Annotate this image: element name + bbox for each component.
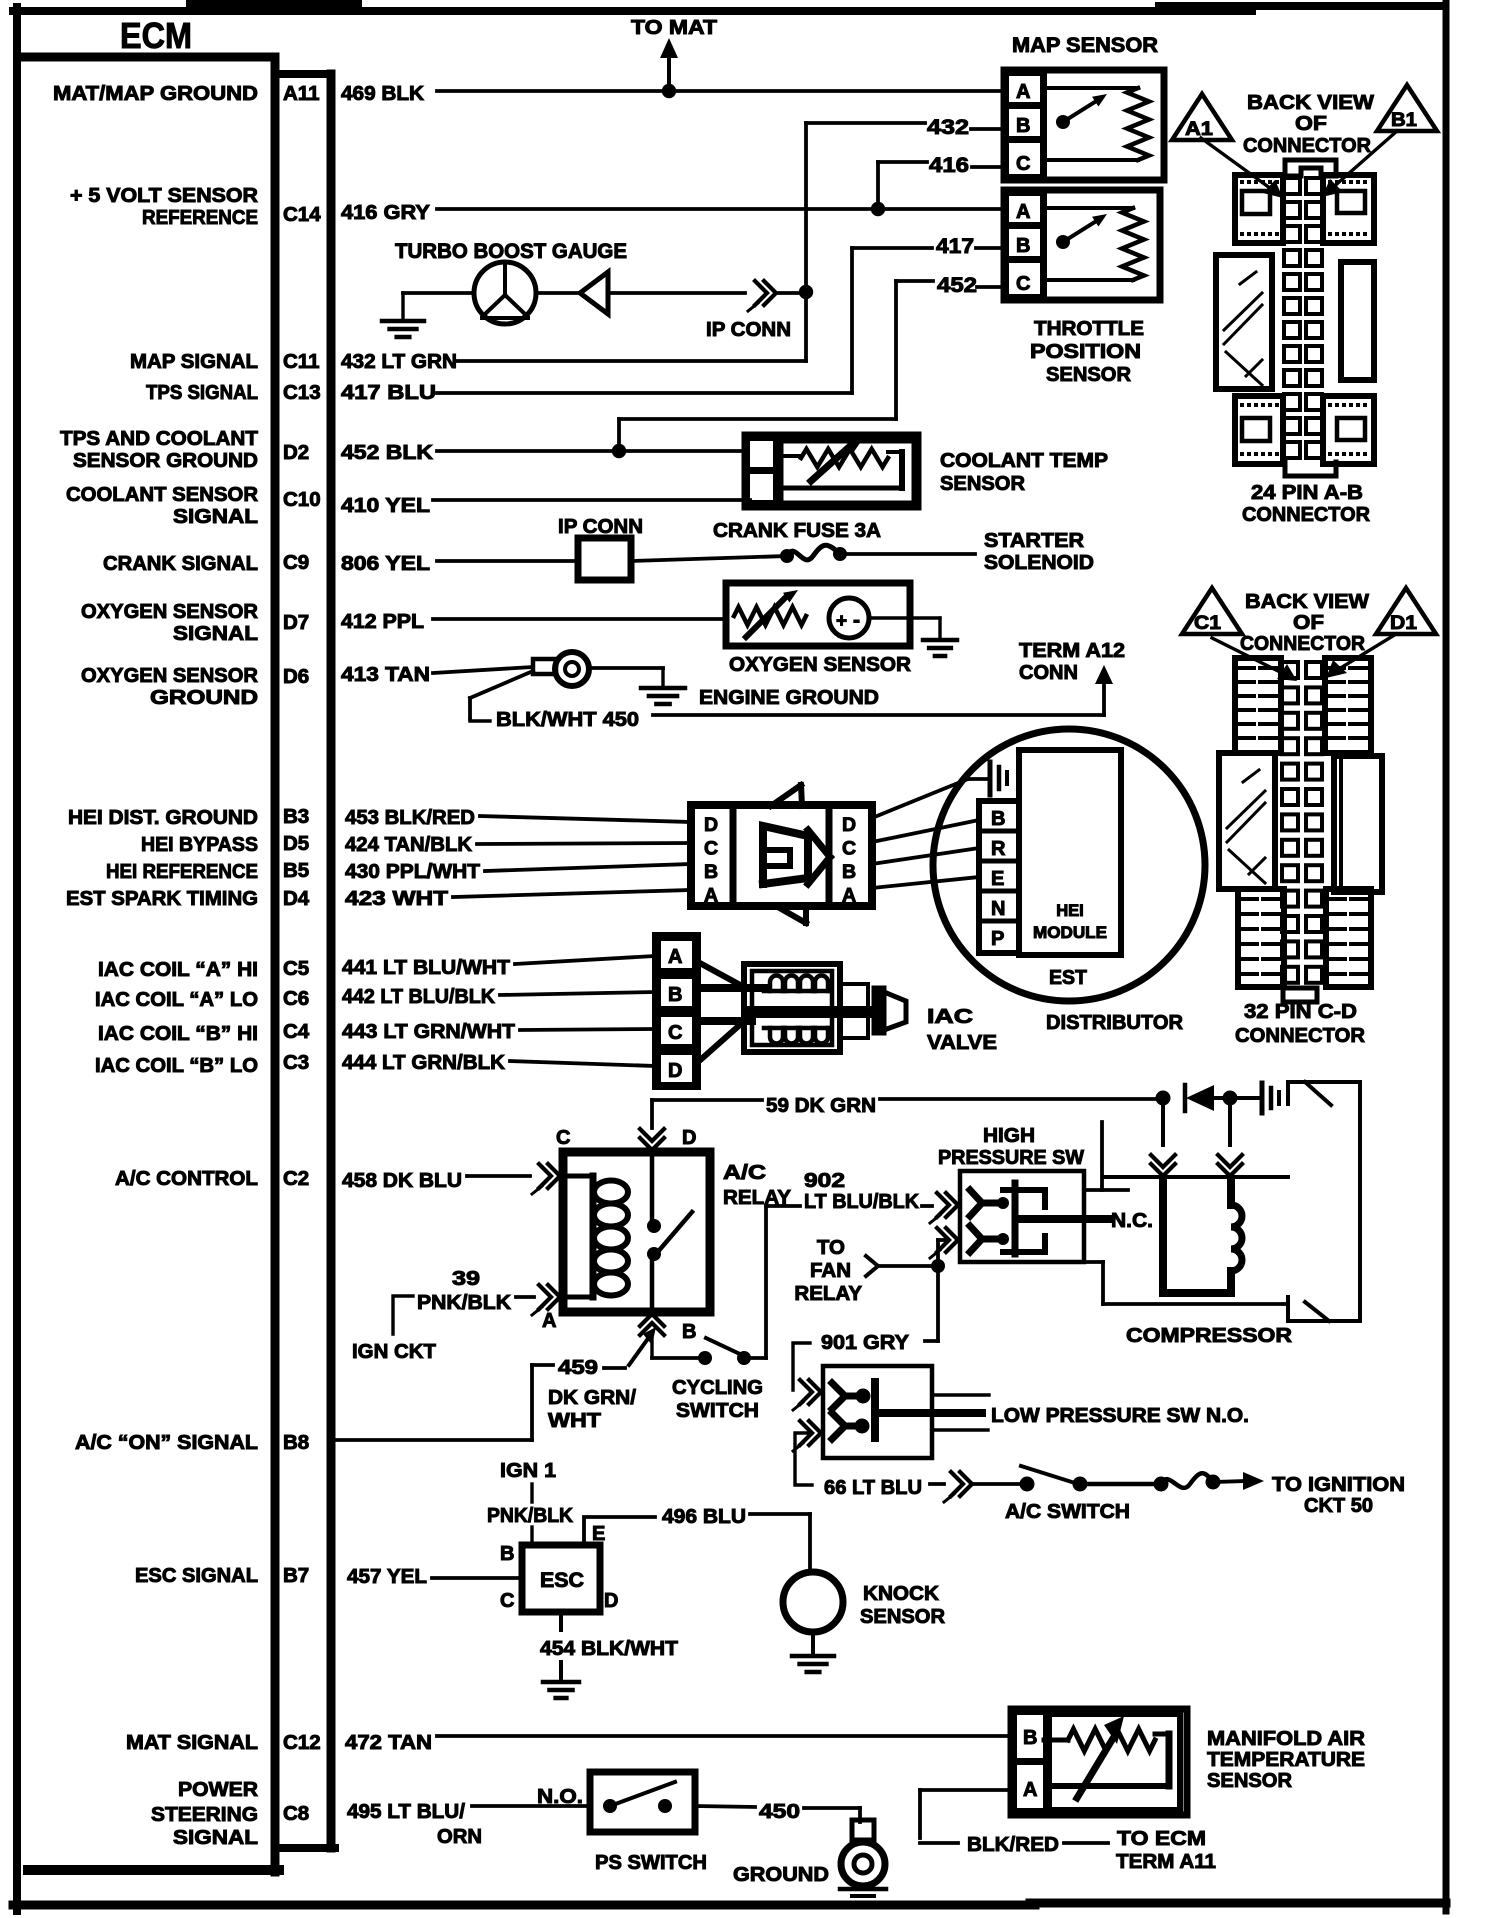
svg-text:SENSOR GROUND: SENSOR GROUND	[73, 449, 258, 472]
svg-text:ESC: ESC	[540, 1569, 584, 1592]
svg-text:LOW PRESSURE SW N.O.: LOW PRESSURE SW N.O.	[991, 1404, 1249, 1427]
svg-text:441 LT BLU/WHT: 441 LT BLU/WHT	[342, 956, 510, 979]
svg-text:OXYGEN SENSOR: OXYGEN SENSOR	[81, 664, 258, 687]
node LOW PRESSURE SW N.O. label	[991, 1404, 1249, 1427]
ground (ESC 454)	[543, 1662, 579, 1698]
svg-text:C: C	[556, 1127, 570, 1149]
svg-text:A1: A1	[1185, 119, 1213, 140]
svg-text:EST SPARK TIMING: EST SPARK TIMING	[66, 887, 258, 910]
svg-text:OXYGEN SENSOR: OXYGEN SENSOR	[81, 600, 258, 623]
svg-text:D6: D6	[283, 665, 309, 688]
svg-text:-: -	[853, 609, 860, 632]
junction 452	[612, 444, 626, 458]
wire HEI B to distributor R	[872, 848, 979, 864]
wire 472 TAN	[437, 1734, 1011, 1738]
svg-text:495 LT BLU/: 495 LT BLU/	[347, 1800, 465, 1823]
svg-text:A: A	[1016, 201, 1030, 223]
wire 454 BLK/WHT	[540, 1612, 678, 1660]
svg-text:458 DK BLU: 458 DK BLU	[342, 1169, 462, 1192]
junction 416	[871, 202, 885, 216]
svg-text:BLK/WHT 450: BLK/WHT 450	[496, 708, 639, 731]
op-amp ESC module	[500, 1523, 618, 1612]
svg-text:B: B	[668, 984, 682, 1006]
wire 441 LT BLU/WHT	[515, 956, 655, 964]
svg-text:IGN 1: IGN 1	[500, 1459, 556, 1482]
switch high pressure	[930, 1124, 1085, 1262]
svg-text:CONN: CONN	[1019, 661, 1078, 684]
ground (distributor internal)	[968, 762, 1007, 795]
svg-text:MAT/MAP GROUND: MAT/MAP GROUND	[53, 82, 258, 105]
svg-text:D: D	[668, 1060, 682, 1082]
wire to HP lower contact	[938, 1240, 946, 1266]
wire 417 BLU	[437, 248, 1004, 393]
wire to TERM A12	[653, 665, 1113, 715]
svg-text:A11: A11	[283, 82, 319, 105]
wire gauge to IP conn	[536, 291, 745, 295]
svg-text:D7: D7	[283, 611, 309, 634]
ground (oxygen sensor)	[923, 618, 957, 656]
junction 432/gauge	[776, 285, 813, 299]
svg-text:A/C SWITCH: A/C SWITCH	[1005, 1500, 1130, 1523]
svg-text:C: C	[668, 1022, 682, 1044]
svg-text:430 PPL/WHT: 430 PPL/WHT	[345, 860, 480, 883]
svg-text:ENGINE GROUND: ENGINE GROUND	[699, 686, 879, 709]
svg-text:SENSOR: SENSOR	[860, 1605, 945, 1628]
wire 457 YEL to ESC	[432, 1576, 522, 1580]
sensor throttle position (potentiometer)	[1001, 187, 1160, 386]
svg-text:EST: EST	[1049, 966, 1087, 989]
svg-text:MODULE: MODULE	[1033, 924, 1107, 942]
connector HEI pigtail DCBA	[691, 785, 872, 923]
wire 66 LT BLU	[795, 1433, 1027, 1502]
svg-text:SIGNAL: SIGNAL	[173, 622, 258, 645]
node IGN CKT	[352, 1296, 436, 1363]
svg-text:FAN: FAN	[810, 1259, 851, 1282]
svg-text:B7: B7	[283, 1564, 309, 1587]
svg-text:442 LT BLU/BLK: 442 LT BLU/BLK	[342, 985, 495, 1008]
svg-text:A/C “ON” SIGNAL: A/C “ON” SIGNAL	[75, 1431, 258, 1454]
svg-text:443 LT GRN/WHT: 443 LT GRN/WHT	[342, 1020, 515, 1043]
svg-text:412 PPL: 412 PPL	[341, 610, 424, 633]
svg-text:432 LT GRN: 432 LT GRN	[341, 350, 457, 373]
switch low pressure	[793, 1366, 989, 1458]
wire 442 LT BLU/BLK	[500, 992, 655, 995]
svg-text:410 YEL: 410 YEL	[341, 494, 430, 517]
svg-text:C2: C2	[283, 1167, 309, 1190]
ECM title label	[120, 15, 192, 56]
wire HEI D to distributor ground	[872, 779, 968, 818]
svg-text:C: C	[1016, 273, 1030, 295]
svg-text:413 TAN: 413 TAN	[341, 663, 430, 686]
compressor housing outline	[1288, 1082, 1360, 1321]
svg-text:CRANK SIGNAL: CRANK SIGNAL	[103, 552, 258, 575]
node ECM signal names	[53, 82, 258, 1849]
wire HP switch to compressor top	[1084, 1122, 1128, 1190]
svg-text:IP CONN: IP CONN	[706, 318, 791, 341]
svg-text:423 WHT: 423 WHT	[345, 887, 449, 910]
wire D1 arrow	[1326, 634, 1396, 678]
svg-text:C3: C3	[283, 1051, 309, 1074]
gauge turbo boost	[395, 240, 627, 324]
svg-text:496 BLU: 496 BLU	[662, 1505, 746, 1528]
node D1 flag	[1376, 588, 1436, 634]
wire BLK/WHT 450 pigtail	[470, 671, 639, 731]
node ECM pin labels	[283, 82, 321, 1825]
svg-text:806 YEL: 806 YEL	[341, 552, 430, 575]
inductor clutch coil	[1163, 1180, 1242, 1293]
svg-text:39: 39	[452, 1267, 480, 1290]
svg-text:STARTER: STARTER	[984, 529, 1084, 552]
svg-text:TO ECM: TO ECM	[1117, 1827, 1206, 1850]
svg-text:COOLANT TEMP: COOLANT TEMP	[940, 449, 1108, 472]
svg-text:COMPRESSOR: COMPRESSOR	[1126, 1324, 1292, 1347]
node IP CONN chevrons	[706, 281, 791, 341]
sensor MAP (potentiometer)	[1001, 34, 1164, 183]
svg-text:IAC COIL “A” LO: IAC COIL “A” LO	[95, 988, 258, 1011]
svg-text:A: A	[704, 885, 718, 907]
svg-text:417 BLU: 417 BLU	[341, 381, 436, 404]
svg-text:+: +	[836, 611, 847, 632]
svg-text:B: B	[1016, 235, 1030, 257]
switch relay contacts	[647, 1152, 692, 1312]
node ECM wire number labels	[341, 82, 515, 1848]
switch A/C	[1005, 1466, 1161, 1523]
relay A/C box	[542, 1127, 710, 1343]
svg-text:GROUND: GROUND	[150, 686, 258, 709]
svg-text:CONNECTOR: CONNECTOR	[1242, 503, 1370, 526]
svg-text:417: 417	[936, 235, 974, 258]
node A1 flag	[1172, 94, 1232, 140]
node DISTRIBUTOR label	[1046, 1011, 1183, 1034]
svg-text:THROTTLE: THROTTLE	[1034, 318, 1144, 340]
svg-text:A: A	[1023, 1779, 1037, 1801]
svg-text:B8: B8	[283, 1431, 309, 1454]
wire N.C. contact	[1018, 1209, 1153, 1232]
svg-text:B: B	[842, 861, 856, 883]
distributor circle	[933, 729, 1205, 1001]
svg-text:REFERENCE: REFERENCE	[142, 206, 258, 229]
svg-text:PRESSURE SW: PRESSURE SW	[938, 1146, 1085, 1169]
svg-text:C14: C14	[283, 203, 321, 226]
svg-text:POSITION: POSITION	[1030, 341, 1141, 363]
node TO IGNITION CKT 50	[1272, 1473, 1405, 1517]
svg-text:D4: D4	[283, 887, 310, 910]
svg-text:KNOCK: KNOCK	[863, 1582, 939, 1605]
svg-text:WHT: WHT	[548, 1409, 602, 1432]
node relay B chevrons	[640, 1314, 664, 1358]
svg-text:B: B	[704, 861, 718, 883]
svg-text:TPS AND COOLANT: TPS AND COOLANT	[60, 427, 258, 450]
svg-text:HIGH: HIGH	[983, 1124, 1035, 1147]
node label 59 DK GRN	[766, 1094, 876, 1117]
svg-text:D2: D2	[283, 441, 309, 464]
svg-text:TO IGNITION: TO IGNITION	[1272, 1473, 1405, 1496]
svg-text:432: 432	[927, 116, 969, 139]
svg-text:32 PIN C-D: 32 PIN C-D	[1244, 1000, 1357, 1023]
node label 432	[927, 116, 969, 139]
wire 901 GRY	[793, 1266, 938, 1390]
svg-text:IAC COIL “B” LO: IAC COIL “B” LO	[95, 1054, 258, 1077]
svg-text:ESC SIGNAL: ESC SIGNAL	[135, 1564, 258, 1587]
svg-text:66 LT BLU: 66 LT BLU	[824, 1476, 922, 1499]
junction diode left	[1156, 1091, 1171, 1106]
svg-text:N.C.: N.C.	[1111, 1209, 1153, 1232]
svg-text:DK GRN/: DK GRN/	[548, 1386, 636, 1409]
svg-text:HEI BYPASS: HEI BYPASS	[141, 833, 258, 856]
svg-text:B3: B3	[283, 805, 309, 828]
svg-text:C4: C4	[283, 1020, 310, 1043]
svg-text:OF: OF	[1295, 112, 1327, 135]
svg-text:E: E	[592, 1523, 605, 1545]
wire B1 arrow	[1322, 131, 1397, 197]
wire 430 PPL/WHT	[485, 864, 691, 871]
wire 459 DK GRN/WHT	[337, 1327, 656, 1440]
op-amp ECM block outline	[20, 57, 335, 1872]
svg-text:A: A	[842, 885, 856, 907]
wire 458 DK BLU to relay C	[467, 1164, 560, 1194]
node relay A chevrons (39 PNK/BLK)	[532, 1285, 560, 1315]
svg-text:C5: C5	[283, 957, 309, 980]
svg-text:VALVE: VALVE	[927, 1031, 997, 1054]
svg-text:C: C	[704, 838, 718, 860]
fuse to ignition	[1154, 1472, 1265, 1492]
node EST label	[1049, 966, 1087, 989]
svg-text:B5: B5	[283, 859, 309, 882]
wire 443 LT GRN/WHT	[520, 1029, 655, 1030]
svg-text:CONNECTOR: CONNECTOR	[1243, 134, 1371, 157]
svg-text:A: A	[542, 1310, 556, 1332]
node COMPRESSOR label	[1126, 1324, 1292, 1347]
svg-text:MANIFOLD AIR: MANIFOLD AIR	[1207, 1727, 1365, 1750]
wire A1 arrow	[1201, 138, 1283, 198]
svg-text:B: B	[991, 808, 1005, 830]
svg-text:SENSOR: SENSOR	[940, 472, 1025, 495]
svg-text:416: 416	[929, 154, 969, 177]
svg-text:457 YEL: 457 YEL	[347, 1565, 427, 1588]
sensor knock	[783, 1572, 945, 1632]
svg-text:CONNECTOR: CONNECTOR	[1235, 1024, 1365, 1047]
svg-text:452: 452	[937, 274, 977, 297]
svg-text:OXYGEN SENSOR: OXYGEN SENSOR	[729, 653, 911, 676]
svg-text:DISTRIBUTOR: DISTRIBUTOR	[1046, 1011, 1183, 1034]
node label 416	[929, 154, 969, 177]
node TO MAT arrow	[631, 16, 718, 91]
svg-text:R: R	[991, 838, 1006, 860]
wire compressor top line	[1103, 1175, 1288, 1179]
node label 417	[936, 235, 974, 258]
connector IAC pins A B C D	[652, 932, 701, 1090]
svg-text:C9: C9	[283, 551, 309, 574]
node open triangle connector	[580, 272, 608, 314]
node IGN 1	[500, 1459, 556, 1502]
junction 469/MAT	[662, 84, 676, 98]
wire BLK/RED from MAT A	[920, 1790, 1216, 1873]
wire 469 BLK	[437, 89, 1008, 93]
svg-text:PNK/BLK: PNK/BLK	[487, 1504, 573, 1527]
wire arrows into clutch coil	[1151, 1098, 1242, 1176]
svg-text:PNK/BLK: PNK/BLK	[417, 1291, 511, 1314]
svg-text:MAT SIGNAL: MAT SIGNAL	[126, 1731, 258, 1754]
svg-text:STEERING: STEERING	[151, 1803, 258, 1826]
wire 416 GRY	[437, 162, 1008, 209]
svg-text:C1: C1	[1194, 613, 1221, 634]
inductor relay coil	[563, 1176, 628, 1297]
svg-text:TERM A12: TERM A12	[1019, 639, 1125, 662]
svg-text:TPS SIGNAL: TPS SIGNAL	[146, 381, 258, 404]
node C1 flag	[1182, 588, 1242, 634]
svg-text:LT BLU/BLK: LT BLU/BLK	[804, 1190, 919, 1213]
svg-text:454 BLK/WHT: 454 BLK/WHT	[540, 1637, 678, 1660]
svg-text:469 BLK: 469 BLK	[341, 82, 424, 105]
svg-text:RELAY: RELAY	[794, 1282, 862, 1305]
svg-text:452 BLK: 452 BLK	[341, 441, 433, 464]
svg-text:59 DK GRN: 59 DK GRN	[766, 1094, 876, 1117]
connector distributor terminals B R E N P	[979, 801, 1019, 953]
svg-text:CONNECTOR: CONNECTOR	[1240, 632, 1365, 655]
svg-text:TEMPERATURE: TEMPERATURE	[1207, 1748, 1365, 1771]
wire 444 LT GRN/BLK	[510, 1061, 655, 1066]
node label 452	[937, 274, 977, 297]
svg-text:C13: C13	[283, 381, 321, 404]
svg-text:B: B	[682, 1321, 696, 1343]
svg-text:D: D	[704, 814, 718, 836]
wire 806 YEL	[437, 556, 787, 561]
svg-text:MAP SENSOR: MAP SENSOR	[1012, 34, 1158, 57]
wire HEI A to distributor E	[872, 877, 979, 888]
svg-text:HEI: HEI	[1056, 902, 1084, 920]
svg-text:B: B	[1016, 115, 1030, 137]
node STARTER SOLENOID label	[984, 529, 1094, 574]
svg-text:416 GRY: 416 GRY	[341, 201, 430, 224]
svg-text:C8: C8	[283, 1802, 309, 1825]
node IAC VALVE label	[927, 1005, 997, 1054]
svg-text:CKT 50: CKT 50	[1304, 1494, 1373, 1517]
svg-text:A: A	[1016, 81, 1030, 103]
svg-text:901 GRY: 901 GRY	[821, 1331, 909, 1354]
svg-text:SIGNAL: SIGNAL	[173, 1826, 258, 1849]
svg-text:C10: C10	[283, 488, 321, 511]
svg-text:GROUND: GROUND	[733, 1863, 829, 1886]
wire C1 arrow	[1212, 638, 1297, 681]
svg-text:CYCLING: CYCLING	[672, 1376, 763, 1399]
node TERM A12 CONN label	[1019, 639, 1125, 684]
svg-text:C: C	[500, 1590, 514, 1612]
svg-text:COOLANT SENSOR: COOLANT SENSOR	[66, 483, 258, 506]
svg-text:HEI DIST. GROUND: HEI DIST. GROUND	[68, 806, 258, 829]
battery/capacitor symbol	[1230, 1083, 1279, 1113]
node B1 flag	[1377, 85, 1437, 131]
ground (turbo gauge)	[382, 293, 474, 337]
svg-text:424 TAN/BLK: 424 TAN/BLK	[345, 833, 472, 856]
svg-text:444 LT GRN/BLK: 444 LT GRN/BLK	[342, 1051, 505, 1074]
svg-text:D5: D5	[283, 832, 309, 855]
svg-text:B1: B1	[1391, 110, 1417, 131]
wire 452 BLK	[437, 281, 1004, 451]
switch cycling	[652, 1338, 763, 1422]
svg-text:D: D	[842, 814, 856, 836]
svg-text:SENSOR: SENSOR	[1046, 364, 1132, 386]
connector IP CONN box	[558, 515, 643, 580]
svg-text:450: 450	[759, 1800, 800, 1823]
svg-text:TURBO BOOST GAUGE: TURBO BOOST GAUGE	[395, 240, 627, 263]
wire 410 YEL to coolant sensor	[433, 498, 750, 502]
svg-text:HEI REFERENCE: HEI REFERENCE	[106, 860, 258, 883]
svg-text:P: P	[991, 928, 1004, 950]
svg-text:453 BLK/RED: 453 BLK/RED	[345, 806, 475, 829]
svg-text:C: C	[1016, 153, 1030, 175]
svg-text:A/C: A/C	[723, 1161, 766, 1184]
wire 59 DK GRN	[652, 1099, 1160, 1128]
svg-text:OF: OF	[1293, 611, 1324, 634]
svg-text:N.O.: N.O.	[537, 1785, 583, 1808]
svg-text:SOLENOID: SOLENOID	[984, 551, 1094, 574]
svg-text:D: D	[604, 1590, 618, 1612]
fuse CRANK FUSE 3A	[713, 519, 975, 563]
diode D1 (clutch)	[1185, 1085, 1230, 1111]
svg-text:IAC COIL “B” HI: IAC COIL “B” HI	[98, 1022, 258, 1045]
node TO FAN RELAY	[794, 1236, 931, 1305]
ground ENGINE GROUND	[641, 668, 879, 709]
sensor coolant temp (variable resistor)	[742, 432, 1108, 510]
wire 902 LT BLU/BLK	[744, 1169, 932, 1358]
svg-text:PS SWITCH: PS SWITCH	[595, 1851, 707, 1874]
svg-text:MAP SIGNAL: MAP SIGNAL	[130, 350, 258, 373]
svg-text:A: A	[668, 946, 682, 968]
sensor oxygen	[726, 583, 940, 676]
wire 39 PNK/BLK	[417, 1267, 534, 1314]
op-amp HEI MODULE box	[1019, 750, 1121, 955]
wire 413 TAN ring terminal	[433, 652, 663, 686]
svg-text:N: N	[991, 898, 1005, 920]
wire 424 TAN/BLK	[477, 843, 691, 844]
svg-text:SWITCH: SWITCH	[676, 1399, 759, 1422]
svg-text:C: C	[842, 838, 856, 860]
switch PS (power steering)	[590, 1772, 707, 1874]
svg-text:POWER: POWER	[178, 1778, 258, 1801]
wire 412 PPL	[433, 617, 726, 621]
svg-text:SENSOR: SENSOR	[1207, 1769, 1292, 1792]
svg-text:TERM A11: TERM A11	[1116, 1850, 1216, 1873]
connector 24 pin A-B back view	[1216, 91, 1375, 526]
svg-text:+ 5 VOLT SENSOR: + 5 VOLT SENSOR	[70, 184, 258, 207]
svg-text:C11: C11	[283, 350, 319, 373]
svg-text:ECM: ECM	[120, 15, 192, 56]
svg-text:C6: C6	[283, 987, 309, 1010]
svg-text:TO MAT: TO MAT	[631, 16, 718, 39]
svg-text:472 TAN: 472 TAN	[345, 1731, 432, 1754]
svg-text:B: B	[1023, 1727, 1037, 1749]
svg-text:TO: TO	[817, 1236, 845, 1259]
wire 453 BLK/RED	[480, 816, 691, 822]
svg-text:ORN: ORN	[437, 1825, 482, 1848]
svg-text:BLK/RED: BLK/RED	[967, 1833, 1059, 1856]
ground (knock sensor)	[792, 1632, 834, 1672]
wire 450 to ground	[695, 1800, 860, 1823]
wire 432 LT GRN	[457, 123, 1004, 361]
wire HEI C to distributor B	[872, 820, 979, 842]
node chevrons into relay D	[640, 1129, 664, 1150]
node A/C RELAY label	[723, 1161, 791, 1209]
svg-text:IAC COIL “A” HI: IAC COIL “A” HI	[98, 958, 258, 981]
svg-text:B: B	[500, 1543, 514, 1565]
wire HP switch bottom to compressor	[1084, 1262, 1288, 1304]
svg-text:BACK VIEW: BACK VIEW	[1247, 91, 1375, 114]
svg-text:A/C CONTROL: A/C CONTROL	[115, 1167, 258, 1190]
wire 495 LT BLU/ORN	[472, 1785, 590, 1808]
junction fan relay	[931, 1259, 945, 1273]
svg-text:IAC: IAC	[927, 1005, 973, 1028]
valve IAC motor body	[696, 962, 906, 1062]
